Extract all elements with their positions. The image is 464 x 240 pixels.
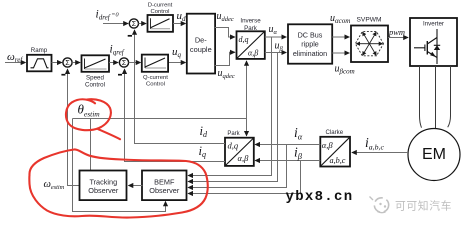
svg-text:α,β: α,β (322, 140, 334, 150)
svg-text:Clarke: Clarke (325, 129, 343, 136)
block Ramp (27, 55, 52, 72)
block D-current Control (148, 15, 174, 32)
transistor IGBT with diode inside Inverter (414, 29, 440, 64)
wire omega_estim from Tracking Observer to S1 (44, 69, 81, 191)
svg-text:d,q: d,q (228, 140, 239, 150)
wire i_beta from Clarke to Park (255, 144, 320, 161)
wire u_d from D-current Control to Decouple (173, 10, 186, 24)
block SVPWM label (357, 17, 382, 24)
block Inverse Park (237, 31, 265, 59)
block DC Bus ripple elimination (288, 24, 332, 63)
red annotation ellipse around theta_estim (66, 99, 120, 139)
node i_dref = 0 label (96, 9, 120, 22)
block Q-current Control label (143, 75, 168, 88)
wire i_abc from EM to Clarke (352, 135, 408, 153)
svg-text:BEMF: BEMF (154, 177, 175, 186)
svg-text:D-current: D-current (148, 3, 173, 9)
wire u_alpha from Inverse Park to DC Bus (265, 24, 286, 37)
svg-text:Σ: Σ (132, 21, 137, 28)
svg-text:Inverter: Inverter (423, 21, 444, 28)
wire S2 to Q-current Control (129, 62, 141, 64)
svg-text:Speed: Speed (86, 75, 104, 82)
block Speed Control label (85, 75, 105, 89)
wire phase C from Inverter to EM (448, 66, 451, 127)
block Clarke label (325, 129, 343, 136)
svg-text:Σ: Σ (122, 60, 127, 67)
wire u_ddec from Decouple to Inverse Park (215, 11, 235, 37)
block Clarke (320, 137, 350, 167)
wire Ramp to summing junction S1 (52, 62, 62, 64)
wire theta_estim horizontal bus (73, 118, 247, 120)
svg-text:elimination: elimination (293, 49, 327, 58)
wire u_beta tap to BEMF Observer input 2 (188, 53, 277, 182)
wire u_alpha tap to BEMF Observer input 1 (188, 37, 271, 176)
svg-text:Control: Control (146, 82, 165, 88)
svg-text:Observer: Observer (149, 186, 180, 195)
wire i_alpha from Clarke to Park (255, 125, 320, 144)
block Q-current Control (142, 55, 168, 72)
svg-text:Σ: Σ (65, 60, 70, 67)
svg-text:ybx8.cn: ybx8.cn (286, 189, 354, 205)
wire Speed Control to summing junction S2, node i_qref (109, 44, 125, 63)
wire i_dref to summing junction S3 (103, 23, 128, 25)
wire S1 to Speed Control (72, 62, 80, 64)
svg-text:De-: De- (195, 36, 207, 45)
wire u_q from Q-current Control to Decouple (169, 46, 186, 63)
svg-text:Inverse: Inverse (240, 18, 261, 25)
wire BEMF Observer to Tracking Observer (129, 185, 143, 187)
svg-text:Observer: Observer (88, 186, 119, 195)
svg-text:pwm: pwm (388, 27, 405, 37)
watermark kekezhi qiche (395, 198, 452, 212)
red annotation loop around observers (29, 149, 207, 217)
wire theta_estim branch down to BEMF Observer (73, 119, 166, 212)
block SVPWM (351, 26, 388, 63)
watermark logo circle (370, 197, 389, 213)
summing junction S2 (118, 58, 129, 75)
svg-text:α,β: α,β (238, 153, 250, 163)
wire theta_estim vertical into Park and Inverse Park (246, 61, 248, 136)
node theta_estim label (78, 102, 101, 119)
motor EM (408, 129, 460, 181)
wire u_betacom from DC Bus to SVPWM (332, 53, 354, 76)
watermark ybx8.cn (286, 189, 354, 205)
wire pwm from SVPWM to Inverter (388, 27, 408, 38)
wire i_beta tap to BEMF Observer input 4 (188, 161, 300, 194)
svg-text:EM: EM (422, 146, 446, 163)
wire u_qdec from Decouple to Inverse Park (215, 52, 235, 80)
svg-text:Ramp: Ramp (31, 47, 48, 54)
svg-text:Park: Park (227, 131, 240, 137)
block Inverter (410, 18, 457, 66)
block BEMF Observer (142, 171, 187, 201)
block Park label (227, 131, 240, 137)
svg-text:可可知汽车: 可可知汽车 (395, 198, 452, 212)
wire i_q feedback from Park to S2 (125, 69, 226, 161)
block Tracking Observer (80, 171, 127, 201)
block D-current Control label (148, 3, 173, 16)
wire u_beta from Inverse Park to DC Bus (265, 41, 286, 53)
block Park (225, 138, 254, 166)
svg-text:SVPWM: SVPWM (357, 17, 382, 24)
svg-text:d,q: d,q (239, 35, 249, 44)
svg-text:DC Bus: DC Bus (298, 31, 323, 40)
wire omega_ref to Ramp (5, 62, 26, 64)
block Ramp label (31, 47, 48, 54)
summing junction S1 (61, 58, 72, 75)
block Inverse Park label (240, 18, 261, 32)
svg-text:ripple: ripple (301, 40, 319, 49)
wire i_alpha tap to BEMF Observer input 3 (188, 145, 286, 188)
wire i_d feedback from Park to S3 (135, 30, 226, 144)
svg-text:α,β: α,β (248, 49, 258, 58)
svg-text:a,b,c: a,b,c (330, 156, 346, 165)
block Speed Control (82, 55, 110, 72)
summing junction S3 (128, 19, 139, 36)
svg-text:Control: Control (85, 82, 105, 89)
svg-text:Tracking: Tracking (89, 177, 117, 186)
wire phase B from Inverter to EM (435, 66, 437, 129)
block Decouple (187, 14, 215, 74)
wire u_alphacom from DC Bus to SVPWM (330, 13, 350, 37)
node omega_ref input label (7, 51, 23, 64)
wire S3 to D-current Control (139, 23, 147, 25)
wire phase A from Inverter to EM (420, 66, 422, 128)
wire theta_estim riser from Tracking Observer (90, 119, 92, 172)
svg-text:Q-current: Q-current (143, 75, 168, 81)
svg-text:couple: couple (190, 45, 212, 54)
